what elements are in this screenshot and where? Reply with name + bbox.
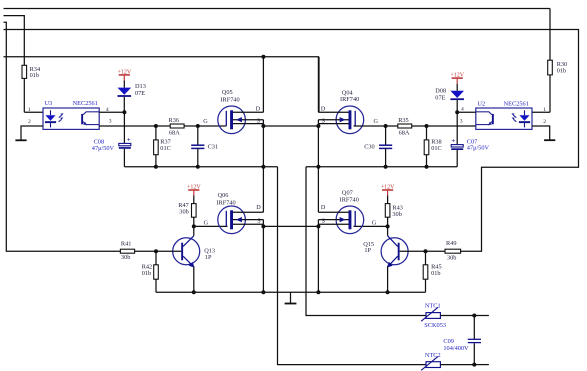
wire source branch bottom pair <box>263 225 318 227</box>
svg-text:IRF740: IRF740 <box>216 200 235 207</box>
svg-text:R41: R41 <box>121 241 131 248</box>
opto U3 emission arrow <box>59 113 64 122</box>
label NTC2 <box>425 352 441 359</box>
svg-text:47μ/50V: 47μ/50V <box>467 145 490 152</box>
wire Q13 emitter <box>193 267 195 293</box>
svg-text:01C: 01C <box>431 145 442 152</box>
svg-text:1: 1 <box>543 107 546 113</box>
capacitor C09 <box>468 316 481 365</box>
label Q04 D <box>321 105 326 112</box>
svg-text:2: 2 <box>28 119 31 125</box>
label U3 part NEC2561 <box>73 100 98 107</box>
svg-text:G: G <box>372 220 377 227</box>
label U2 <box>477 101 485 108</box>
resistor R34 <box>22 65 43 112</box>
label D08 <box>435 87 446 101</box>
label R42 <box>142 264 153 277</box>
label Q05 D <box>256 105 261 112</box>
svg-text:4: 4 <box>106 107 109 113</box>
wire Q04 drain up <box>317 57 319 113</box>
ground U3 <box>15 139 26 141</box>
svg-text:D: D <box>321 105 326 112</box>
capacitor C07 <box>306 112 463 167</box>
resistor R36 <box>156 124 198 128</box>
wire Q04 gate <box>354 125 386 127</box>
label G right-bottom <box>372 220 377 227</box>
svg-text:S: S <box>322 117 326 124</box>
svg-text:47μ/50V: 47μ/50V <box>92 145 115 152</box>
opto U2 emission arrow <box>511 113 516 122</box>
node Q06 source rail <box>261 290 265 294</box>
label Q15 <box>363 241 374 254</box>
svg-text:D: D <box>321 204 326 211</box>
wire left output <box>278 167 427 365</box>
wire floating rail right <box>306 166 457 168</box>
wire HV supply rail <box>4 57 320 113</box>
svg-text:R36: R36 <box>169 117 180 124</box>
node C31 top <box>196 124 200 128</box>
svg-text:G: G <box>203 118 208 125</box>
wire right output <box>306 167 426 316</box>
node Q13 emitter rail <box>192 290 196 294</box>
resistor R37 <box>154 126 159 167</box>
wire Q05 source down <box>262 124 264 167</box>
wire floating rail left <box>124 166 277 168</box>
svg-text:1P: 1P <box>364 247 371 254</box>
ground rail <box>285 292 297 303</box>
label C07 <box>467 138 490 151</box>
resistor R41 <box>120 249 134 253</box>
node R42 top <box>154 249 158 253</box>
label G left-bottom <box>204 220 209 227</box>
node U3 pin4 / D13 <box>122 110 126 114</box>
svg-text:NTC1: NTC1 <box>425 303 441 310</box>
node Q05 source branch <box>261 124 265 128</box>
pin 4 of U3 <box>99 107 124 113</box>
pin 1 of U3 <box>24 107 43 113</box>
node R37 bottom <box>154 165 158 169</box>
mosfet Q07 <box>318 206 363 234</box>
opto U3 photo-transistor <box>81 112 99 126</box>
svg-text:U3: U3 <box>45 100 53 107</box>
wire Q07 gate <box>354 225 388 227</box>
node Q15 emitter rail <box>386 290 390 294</box>
svg-text:R49: R49 <box>446 240 457 247</box>
label C31 <box>208 143 219 150</box>
label NTC1 part <box>424 322 446 329</box>
node R45 top <box>424 249 428 253</box>
pin 2 of U3 <box>28 119 31 125</box>
diode D08 <box>450 84 464 113</box>
capacitor C30 <box>379 126 392 167</box>
opto U2 LED <box>519 110 530 127</box>
mosfet Q04 <box>318 106 363 134</box>
opto-coupler U3 box <box>43 108 99 129</box>
wire Q06 source down <box>262 224 264 292</box>
svg-text:G: G <box>204 220 209 227</box>
svg-text:01C: 01C <box>160 145 171 152</box>
label D13 <box>135 83 146 97</box>
thermistor NTC2 <box>421 356 489 370</box>
label R41 <box>121 241 131 261</box>
node C30 top <box>384 124 388 128</box>
svg-text:1: 1 <box>28 107 31 113</box>
svg-text:+: + <box>127 137 131 144</box>
label R43 <box>392 204 403 218</box>
label R38 <box>431 139 442 152</box>
node C09 bottom <box>472 363 476 367</box>
wire Q13 collector <box>193 226 195 235</box>
label R30 <box>557 61 568 75</box>
node C09 top <box>472 314 476 318</box>
node U2 pin4 / D08 <box>455 110 459 114</box>
svg-text:2: 2 <box>543 119 546 125</box>
svg-text:104/400V: 104/400V <box>443 345 469 352</box>
label R47 <box>178 202 189 216</box>
svg-text:30b: 30b <box>121 254 130 261</box>
wire Q15 base <box>400 250 426 252</box>
svg-text:D13: D13 <box>135 83 146 90</box>
label G left-top <box>203 118 208 125</box>
resistor R47 <box>192 196 197 227</box>
wire Q15 collector <box>387 226 389 235</box>
transistor Q15 <box>381 236 408 268</box>
node Q07 source rail <box>316 290 320 294</box>
opto U3 LED <box>45 110 56 127</box>
svg-text:IRF740: IRF740 <box>220 97 239 104</box>
power +12V for D08 <box>450 72 464 83</box>
thermistor NTC1 <box>421 307 489 321</box>
power +12V for D13 <box>117 69 131 80</box>
svg-text:NTC2: NTC2 <box>425 352 441 359</box>
svg-text:Q06: Q06 <box>218 192 229 199</box>
svg-text:D: D <box>256 204 261 211</box>
node Q04 source rail <box>316 165 320 169</box>
label Q07 <box>340 190 359 204</box>
svg-text:S: S <box>257 217 261 224</box>
svg-text:NEC2561: NEC2561 <box>73 100 98 107</box>
wire Q15 emitter <box>387 267 389 293</box>
svg-text:01b: 01b <box>30 72 39 79</box>
svg-text:R35: R35 <box>398 117 409 124</box>
label Q06 D <box>256 204 261 211</box>
svg-text:NEC2561: NEC2561 <box>504 101 529 108</box>
node R37 top <box>154 124 158 128</box>
label R45 <box>431 264 442 277</box>
svg-text:01b: 01b <box>557 68 566 75</box>
label NTC1 <box>425 303 441 310</box>
label Q05 <box>220 89 239 104</box>
resistor R38 <box>424 126 429 167</box>
svg-text:C31: C31 <box>208 143 219 150</box>
wire input line 1 (top, to R30) <box>4 9 551 61</box>
wire Q05 drain up <box>262 57 264 113</box>
wire input stub 3 (to Q13 base drive) <box>4 22 121 251</box>
svg-text:07E: 07E <box>435 94 445 101</box>
resistor R35 <box>386 124 427 128</box>
label Q07 S <box>322 217 326 224</box>
label Q04 <box>340 90 359 104</box>
label R34 value <box>30 66 41 79</box>
node Q07 source branch <box>316 224 320 228</box>
label Q05 S <box>257 117 261 124</box>
svg-text:07E: 07E <box>135 90 145 97</box>
wire Q07 source down <box>317 224 319 292</box>
label C09 <box>443 338 469 352</box>
wire G to Q05 gate <box>198 125 227 127</box>
label Q07 D <box>321 204 326 211</box>
svg-text:4: 4 <box>461 106 464 112</box>
svg-text:68A: 68A <box>169 129 180 136</box>
wire source branch top pair <box>263 125 318 127</box>
svg-text:IRF740: IRF740 <box>340 196 359 203</box>
label R36 <box>169 117 181 137</box>
node C31 bottom <box>196 165 200 169</box>
svg-text:+: + <box>451 138 455 145</box>
svg-text:C30: C30 <box>364 143 375 150</box>
svg-text:S: S <box>257 117 261 124</box>
pin 3 of U3 <box>99 119 156 126</box>
opto U2 photo-transistor <box>476 112 494 126</box>
svg-text:30b: 30b <box>392 211 401 218</box>
wire Q07 drain up <box>317 167 319 212</box>
wire input line 2 (to R34) <box>4 16 25 66</box>
transistor Q13 <box>173 236 200 268</box>
resistor R30 <box>548 60 553 75</box>
svg-text:D: D <box>256 105 261 112</box>
svg-text:3: 3 <box>460 119 463 125</box>
svg-text:30b: 30b <box>447 255 456 262</box>
svg-text:U2: U2 <box>477 101 485 108</box>
mosfet Q05 <box>218 106 264 134</box>
power +12V for R43 <box>381 184 395 195</box>
label U2 part NEC2561 <box>504 101 529 108</box>
svg-text:30b: 30b <box>179 209 188 216</box>
resistor R42 <box>154 251 159 292</box>
node R38 bottom <box>425 165 429 169</box>
label R37 <box>160 139 171 152</box>
label Q13 <box>204 248 215 261</box>
node Q06 source branch <box>261 224 265 228</box>
pin 4 of U2 <box>457 106 476 112</box>
pin 3 of U2 <box>460 119 463 125</box>
node Q04 source branch <box>316 124 320 128</box>
opto-coupler U2 box <box>476 108 532 129</box>
svg-text:3: 3 <box>109 119 112 125</box>
ground U2 <box>544 139 555 141</box>
label C30 <box>364 143 375 150</box>
label Q06 <box>216 192 235 207</box>
pin 2 of U2 <box>532 119 550 140</box>
mosfet Q06 <box>218 206 264 234</box>
svg-text:01b: 01b <box>431 270 440 277</box>
svg-text:01b: 01b <box>142 270 151 277</box>
node Q05 source rail <box>261 165 265 169</box>
wire Q04 source down <box>317 124 319 167</box>
resistor R43 <box>385 196 390 227</box>
node Q07 gate <box>386 224 390 228</box>
label Q06 S <box>257 217 261 224</box>
node C30 bottom <box>384 165 388 169</box>
resistor R49 <box>426 249 461 253</box>
wire emitter rail <box>156 291 426 293</box>
node HV to Q05 drain <box>261 55 265 59</box>
resistor R45 <box>423 251 428 292</box>
svg-text:S: S <box>322 217 326 224</box>
svg-text:IRF740: IRF740 <box>340 96 359 103</box>
svg-text:68A: 68A <box>399 129 410 136</box>
wire Q06 drain up <box>262 167 264 212</box>
wire Q13 base <box>135 250 182 252</box>
power +12V for R47 <box>187 184 201 195</box>
label R49 <box>446 240 457 262</box>
capacitor C31 <box>191 126 204 167</box>
capacitor C08 <box>119 112 131 167</box>
wire gate net to U2 pin3 <box>427 125 477 127</box>
label G right-top <box>374 118 379 125</box>
node R38 top <box>425 124 429 128</box>
label Q04 S <box>322 117 326 124</box>
wire U3 pin2 to ground <box>21 126 43 140</box>
wire Q06 gate <box>194 225 228 227</box>
pin 1 of U2 <box>532 75 550 113</box>
label R35 <box>398 117 410 137</box>
label U3 <box>45 100 53 107</box>
wire input line 4 (to Q15 base drive) <box>4 30 579 252</box>
svg-text:D08: D08 <box>435 87 446 94</box>
svg-text:Q05: Q05 <box>222 89 233 96</box>
svg-text:SCK053: SCK053 <box>424 322 446 329</box>
svg-text:G: G <box>374 118 379 125</box>
svg-text:1P: 1P <box>205 254 212 261</box>
label C08 <box>92 139 115 152</box>
node Q06 gate <box>192 224 196 228</box>
diode D13 <box>118 81 132 113</box>
